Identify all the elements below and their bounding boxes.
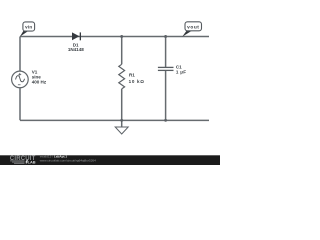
junction dot bottom C1 node — [164, 119, 167, 122]
voltage source V1 circle — [12, 71, 29, 88]
wire bottom horizontal rail — [20, 119, 209, 121]
svg-text:10 kΩ: 10 kΩ — [129, 79, 145, 84]
wire C1 bottom lead — [165, 71, 167, 121]
wire R1 top lead — [121, 37, 123, 65]
wire C1 top lead — [165, 37, 167, 68]
junction dot top C1 node — [164, 35, 167, 38]
watermark logo lightning bolt — [25, 160, 28, 165]
wire top horizontal (vin node to vout node) — [20, 36, 209, 38]
wire left vertical lower (V1 bottom to bottom rail) — [19, 88, 21, 121]
node flag vin box — [23, 22, 35, 31]
diode D1 cathode bar — [80, 32, 81, 40]
wire ground stub — [121, 120, 123, 127]
wire left vertical upper (corner to V1 top) — [19, 37, 21, 72]
node flag vin pointer — [20, 30, 30, 37]
junction dot top R1 node — [120, 35, 123, 38]
svg-text:LAB: LAB — [28, 160, 36, 165]
node flag vout pointer — [182, 30, 192, 37]
V1 plus sign — [18, 73, 21, 76]
resistor R1 zigzag — [119, 64, 125, 89]
svg-text:1N4148: 1N4148 — [68, 47, 84, 52]
V1 sine squiggle — [16, 76, 25, 82]
ground symbol triangle — [115, 127, 128, 134]
V1 minus sign — [18, 84, 21, 86]
watermark logo speed lines — [10, 161, 25, 163]
junction dot bottom R1/ground node — [120, 119, 123, 122]
capacitor C1 bottom plate — [158, 69, 174, 71]
svg-text:www.circuitlab.com/circuit/rg6: www.circuitlab.com/circuit/rg64aj8ur5264 — [40, 158, 96, 162]
svg-text:400 Hz: 400 Hz — [32, 80, 47, 85]
diode D1 triangle — [72, 32, 79, 40]
svg-text:vout: vout — [187, 25, 199, 31]
watermark bar background — [0, 155, 220, 165]
svg-text:R1: R1 — [129, 73, 135, 78]
svg-text:vin: vin — [25, 25, 32, 30]
svg-text:1 µF: 1 µF — [176, 70, 186, 75]
capacitor C1 top plate — [158, 66, 174, 68]
node flag vout box — [185, 22, 202, 31]
wire R1 bottom lead — [121, 89, 123, 120]
